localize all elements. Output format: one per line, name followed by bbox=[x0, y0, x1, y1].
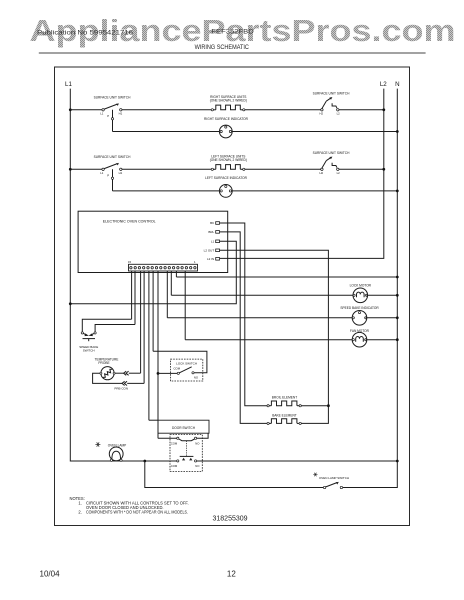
switch: oven lamp switch bbox=[313, 473, 349, 489]
svg-text:ELECTRONIC OVEN CONTROL: ELECTRONIC OVEN CONTROL bbox=[103, 219, 156, 223]
svg-text:1.: 1. bbox=[78, 501, 81, 506]
svg-text:SURFACE UNIT SWITCH: SURFACE UNIT SWITCH bbox=[313, 151, 350, 155]
wire: pin to speed bake indicator bbox=[167, 317, 353, 319]
pin L2 IN of oven control bbox=[207, 257, 219, 261]
junction: lock COM node bbox=[157, 372, 178, 375]
wire: speed bake indicator to N bus bbox=[366, 316, 399, 319]
svg-text:SWITCH: SWITCH bbox=[83, 349, 95, 353]
wire: BK pin to broil element feed bbox=[220, 223, 267, 406]
junction: L1 row1 bbox=[69, 108, 102, 111]
wire: lock motor to N bus bbox=[367, 294, 399, 297]
switch: speed bake switch bbox=[79, 332, 98, 353]
wire: pin to fan motor bbox=[185, 339, 353, 341]
motor: fan motor bbox=[350, 329, 370, 347]
switch: surface unit switch (right, RIGHT row) bbox=[313, 91, 350, 115]
svg-text:15: 15 bbox=[128, 260, 132, 264]
lamp: oven lamp bbox=[95, 442, 126, 461]
svg-text:SPEED BAKE INDICATOR: SPEED BAKE INDICATOR bbox=[340, 306, 379, 310]
wire: element to right switch bbox=[245, 109, 321, 111]
lamp: left surface indicator bbox=[113, 176, 248, 197]
svg-text:LOCK MOTOR: LOCK MOTOR bbox=[350, 284, 372, 288]
svg-text:2.: 2. bbox=[78, 510, 81, 515]
wire: door bottom NO to N bus bbox=[197, 460, 399, 463]
svg-text:BK: BK bbox=[210, 221, 214, 225]
svg-text:H1: H1 bbox=[119, 111, 123, 115]
svg-text:N: N bbox=[395, 81, 399, 88]
svg-text:P: P bbox=[107, 174, 109, 178]
wire: pin to speed bake switch left bbox=[82, 319, 131, 332]
wire: fan motor to N bus bbox=[366, 338, 399, 341]
contact: door switch upper (COM-NO) bbox=[171, 437, 200, 445]
resistor: temperature probe bbox=[95, 358, 119, 380]
pin BRL of oven control bbox=[208, 230, 219, 234]
svg-text:COM: COM bbox=[174, 367, 181, 371]
wire: BRL pin to bake element feed bbox=[220, 232, 267, 424]
schematic border frame bbox=[55, 67, 410, 526]
lamp: right surface indicator bbox=[113, 117, 249, 138]
svg-text:P: P bbox=[107, 114, 109, 118]
connector strip P1 of oven control bbox=[128, 260, 198, 271]
svg-text:(ONE SHOWN, 2 WIRED): (ONE SHOWN, 2 WIRED) bbox=[210, 99, 247, 103]
wire: L2 OUT pin to elements return bbox=[220, 250, 330, 423]
svg-text:RIGHT SURFACE INDICATOR: RIGHT SURFACE INDICATOR bbox=[204, 117, 249, 121]
wire: pilot tap P to indicator line bbox=[111, 169, 113, 191]
wire: right switch to L2 bus bbox=[339, 168, 385, 171]
wire: L1 pin to L1 bus bbox=[69, 241, 236, 305]
wire: indicator to N bus bbox=[232, 130, 398, 133]
switch: surface unit switch (right, LEFT row) bbox=[313, 151, 350, 175]
wire: door switch upper NO up to box bbox=[197, 433, 208, 438]
svg-text:10/04: 10/04 bbox=[40, 570, 61, 579]
wire: probe lower lead to pin bbox=[93, 373, 145, 385]
svg-text:COM: COM bbox=[171, 441, 178, 445]
resistor: broil element bbox=[267, 395, 301, 407]
wire: switch to element bbox=[122, 109, 212, 111]
svg-text:PRB CON: PRB CON bbox=[114, 386, 128, 390]
svg-text:Publication No 5995421716: Publication No 5995421716 bbox=[37, 29, 133, 36]
wire: pin to lock motor bbox=[171, 294, 354, 296]
svg-text:L2: L2 bbox=[337, 111, 341, 115]
notes text bbox=[70, 496, 189, 515]
svg-text:SURFACE UNIT SWITCH: SURFACE UNIT SWITCH bbox=[94, 96, 131, 100]
wire: pin to speed bake switch right bbox=[95, 325, 135, 332]
resistor: bake element bbox=[267, 413, 301, 424]
motor: lock motor bbox=[350, 284, 372, 303]
header rule bbox=[39, 52, 426, 54]
pin L1 of oven control bbox=[211, 240, 220, 244]
wire: L2 bus bbox=[220, 89, 384, 259]
wire: N bus bbox=[343, 89, 397, 488]
svg-text:SURFACE UNIT SWITCH: SURFACE UNIT SWITCH bbox=[313, 91, 350, 95]
junction: L1 row2 bbox=[69, 168, 102, 171]
svg-text:WIRING SCHEMATIC: WIRING SCHEMATIC bbox=[195, 44, 250, 51]
svg-text:NOTES:: NOTES: bbox=[70, 496, 85, 501]
svg-text:H1: H1 bbox=[119, 171, 123, 175]
svg-text:BRL: BRL bbox=[208, 230, 214, 234]
pin BK of oven control bbox=[210, 221, 219, 225]
op-amp U1: electronic oven control box bbox=[78, 211, 228, 272]
svg-text:COMPONENTS WITH * DO NOT APPEA: COMPONENTS WITH * DO NOT APPEAR ON ALL M… bbox=[86, 510, 188, 515]
svg-text:DOOR SWITCH: DOOR SWITCH bbox=[172, 426, 196, 430]
svg-text:LOCK SWITCH: LOCK SWITCH bbox=[176, 361, 197, 365]
svg-text:L2 IN: L2 IN bbox=[207, 257, 214, 261]
svg-text:L1: L1 bbox=[65, 81, 72, 88]
svg-text:OVEN LAMP SWITCH: OVEN LAMP SWITCH bbox=[319, 476, 349, 480]
svg-text:SURFACE UNIT SWITCH: SURFACE UNIT SWITCH bbox=[94, 155, 131, 159]
svg-text:L2: L2 bbox=[337, 171, 341, 175]
svg-text:L1: L1 bbox=[100, 111, 104, 115]
wire: lamp branch to oven lamp switch bbox=[145, 461, 324, 488]
svg-text:FEF352FBD: FEF352FBD bbox=[211, 28, 254, 35]
wire: door switch linkage (dashed) bbox=[186, 441, 188, 457]
svg-text:L2 OUT: L2 OUT bbox=[204, 249, 215, 253]
junction: lamp branch node bbox=[143, 460, 146, 463]
contact: door switch lower (COM-NO) bbox=[171, 456, 200, 468]
lamp: speed bake indicator bbox=[340, 306, 379, 325]
svg-text:L2: L2 bbox=[380, 81, 387, 88]
svg-text:COM: COM bbox=[171, 464, 178, 468]
svg-text:318255309: 318255309 bbox=[213, 516, 248, 523]
wire: indicator to N bus bbox=[232, 190, 398, 193]
wire: L1 bus bbox=[70, 89, 177, 461]
wire: right switch to L2 bus bbox=[339, 108, 385, 111]
switch: lock switch bbox=[171, 359, 203, 381]
svg-text:H2: H2 bbox=[320, 171, 324, 175]
switch: surface unit switch (left, LEFT row) bbox=[94, 155, 131, 178]
svg-text:L1: L1 bbox=[211, 240, 215, 244]
svg-text:BAKE ELEMENT: BAKE ELEMENT bbox=[272, 413, 296, 417]
wire: element to right switch bbox=[245, 168, 321, 170]
resistor: left surface unit heating element bbox=[210, 154, 247, 170]
switch: door switch assembly bbox=[158, 420, 209, 471]
pin L2 OUT of oven control bbox=[204, 249, 220, 253]
wire: door switch top COM feed bbox=[157, 433, 159, 438]
wire: pilot tap P to indicator line bbox=[111, 110, 113, 132]
svg-text:12: 12 bbox=[227, 570, 236, 579]
wire: switch to element bbox=[122, 168, 212, 170]
svg-text:PROBE: PROBE bbox=[98, 361, 109, 365]
wire: pin to N bus (neutral feed) bbox=[176, 276, 398, 279]
svg-text:H2: H2 bbox=[320, 111, 324, 115]
svg-text:(ONE SHOWN, 2 WIRED): (ONE SHOWN, 2 WIRED) bbox=[210, 158, 247, 162]
wire: pin to lock switch NO bbox=[153, 351, 207, 373]
resistor: right surface unit heating element bbox=[210, 95, 247, 111]
switch: surface unit switch (left, RIGHT row) bbox=[94, 96, 131, 119]
svg-text:L1: L1 bbox=[100, 171, 104, 175]
wire: pin to door switch box bbox=[149, 419, 158, 421]
wire: probe upper lead to pin bbox=[115, 371, 141, 375]
svg-text:BROIL ELEMENT: BROIL ELEMENT bbox=[272, 395, 297, 399]
wire: connector pin drops bbox=[132, 271, 186, 438]
svg-text:LEFT SURFACE INDICATOR: LEFT SURFACE INDICATOR bbox=[205, 176, 247, 180]
